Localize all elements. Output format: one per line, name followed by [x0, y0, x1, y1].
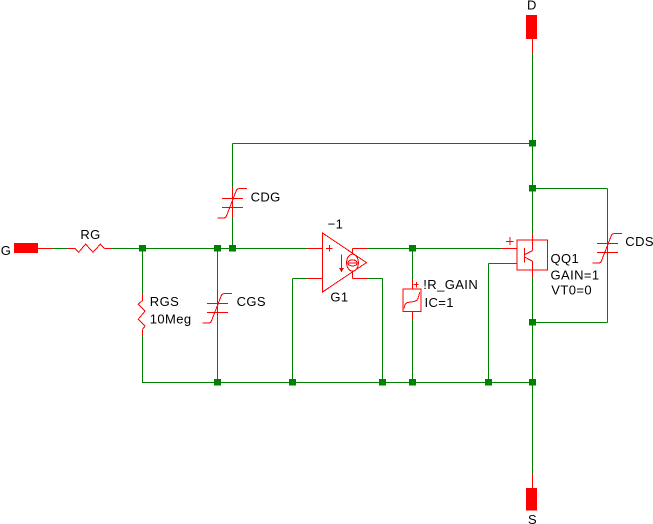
svg-text:QQ1: QQ1	[551, 251, 580, 266]
svg-text:G1: G1	[330, 290, 348, 305]
svg-text:S: S	[528, 512, 537, 524]
svg-text:RGS: RGS	[150, 294, 179, 309]
svg-text:VT0=0: VT0=0	[551, 282, 592, 297]
svg-text:CGS: CGS	[237, 294, 266, 309]
svg-text:IC=1: IC=1	[425, 295, 454, 310]
svg-text:10Meg: 10Meg	[150, 311, 192, 326]
svg-text:!R_GAIN: !R_GAIN	[423, 277, 478, 292]
svg-text:CDG: CDG	[251, 190, 281, 205]
svg-text:GAIN=1: GAIN=1	[551, 267, 600, 282]
svg-text:G: G	[1, 243, 12, 258]
svg-text:CDS: CDS	[625, 234, 653, 249]
svg-text:D: D	[527, 0, 537, 13]
svg-text:RG: RG	[80, 227, 100, 242]
svg-text:−1: −1	[328, 217, 344, 232]
